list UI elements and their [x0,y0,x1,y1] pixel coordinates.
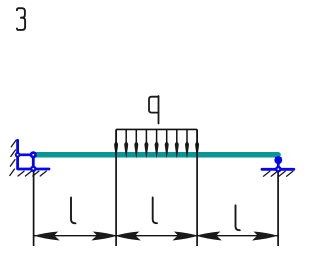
dim arrow left-pointing at line 2 [115,232,141,241]
label q (distributed load) [149,96,159,124]
load arrow 3 [134,129,138,158]
load arrow 1 [114,129,118,158]
right support bottom hinge [275,166,282,173]
beam [34,152,279,158]
extension line 3 (load end) [196,129,198,246]
load arrow 5 [155,129,159,158]
dim arrow right-pointing at line 4 [252,232,278,241]
extension line 1 (left support axis) [33,171,35,247]
right support link [277,159,280,170]
left support bottom hinge [30,166,36,172]
load arrow 6 [165,129,169,158]
label l (segment 3) [236,205,240,230]
extension line 4 (right support axis) [277,171,279,246]
left support wall hatching [10,140,16,175]
right support ground line [262,168,294,171]
dim arrow right-pointing at line 2 [91,232,117,241]
left support ground line [18,168,49,171]
dim arrow left-pointing at line 3 [196,232,222,241]
right support ground hatching [264,171,293,176]
load arrow 2 [124,129,128,158]
left support beam hinge [30,151,37,158]
load arrow 7 [175,129,179,158]
extension line 2 (load start) [115,129,117,246]
dim arrow left-pointing at line 1 [34,232,60,241]
left support vertical link [32,155,35,169]
load arrow 8 [185,129,189,158]
load line (top of distributed load) [116,128,197,130]
right support top flare [275,157,282,164]
label 3 (figure number) [17,8,25,30]
label l (segment 2) [153,198,157,224]
right support top hinge [274,156,282,164]
load arrow 9 [195,129,199,158]
left support wall hinge [15,152,21,158]
dimension line [34,235,279,237]
left support ground hatching [18,171,46,176]
label l (segment 1) [71,198,76,224]
left support top link [18,153,34,156]
left support wall line [16,140,19,169]
load arrow 4 [144,129,148,158]
dim arrow right-pointing at line 3 [172,232,198,241]
